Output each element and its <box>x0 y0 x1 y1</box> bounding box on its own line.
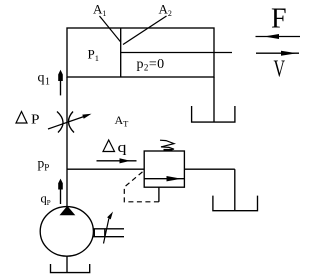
svg-text:A2: A2 <box>159 2 172 19</box>
svg-text:pP: pP <box>38 156 50 173</box>
svg-text:q: q <box>118 140 127 156</box>
svg-text:P1: P1 <box>88 47 99 64</box>
svg-text:AT: AT <box>115 113 130 129</box>
svg-text:qP: qP <box>41 192 51 208</box>
svg-text:q1: q1 <box>38 71 51 88</box>
svg-text:P: P <box>31 113 40 128</box>
svg-text:F: F <box>271 4 287 35</box>
svg-text:A1: A1 <box>93 2 106 19</box>
svg-text:V: V <box>274 57 286 83</box>
svg-text:p2=0: p2=0 <box>137 57 165 73</box>
